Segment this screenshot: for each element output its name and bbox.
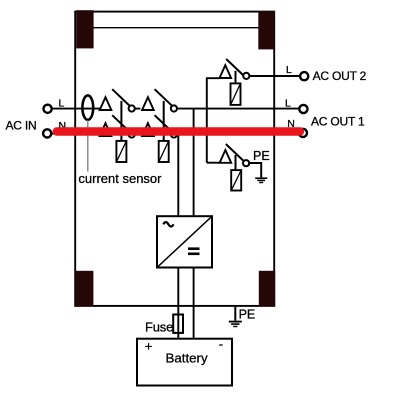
svg-text:L: L xyxy=(285,97,291,109)
relay coil 1 xyxy=(116,141,126,162)
relay L contact 1 pivot xyxy=(129,105,135,111)
relay AC OUT 2 coil xyxy=(231,83,241,105)
svg-text:Fuse: Fuse xyxy=(145,320,173,335)
relay coil 2 xyxy=(159,141,169,162)
wire DC positive to battery xyxy=(177,268,179,340)
relay PE triangle xyxy=(220,150,232,163)
svg-text:PE: PE xyxy=(253,149,270,163)
wire to AC OUT 2 terminal xyxy=(249,75,299,77)
relay L contact 2 triangle xyxy=(142,97,154,110)
svg-text:current sensor: current sensor xyxy=(78,171,162,186)
relay N contact 1 pivot xyxy=(129,131,135,137)
relay L contact 1 blade xyxy=(112,89,130,106)
wire riser AC OUT 2 / PE branch xyxy=(207,78,220,163)
relay N contact 1 blade xyxy=(112,115,130,132)
relay PE link xyxy=(235,155,237,170)
inverter diagonal xyxy=(158,217,212,267)
enclosure case outline xyxy=(75,12,274,306)
wire PE branch horizontal xyxy=(207,162,220,164)
wire top inner bus xyxy=(94,27,259,29)
wire AC IN L lead xyxy=(52,108,100,110)
corner mark top-left xyxy=(76,10,93,48)
wire PE bottom drop xyxy=(234,306,236,321)
relay N contact 2 triangle xyxy=(142,123,154,136)
wire mains L down to inverter xyxy=(193,109,195,217)
wire AC IN N lead xyxy=(52,133,100,135)
relay N contact 1 triangle xyxy=(100,123,112,136)
ground PE right xyxy=(255,178,267,182)
relay AC OUT 2 pivot xyxy=(243,73,249,79)
wire N to AC OUT 1 xyxy=(177,133,298,135)
corner mark bottom-right xyxy=(259,271,275,307)
ground PE bottom xyxy=(229,322,242,327)
terminal AC IN N xyxy=(43,129,51,137)
relay PE coil xyxy=(231,170,241,190)
current sensor ellipse xyxy=(82,95,93,119)
inverter DC equals symbol xyxy=(188,247,200,255)
inverter box U1 xyxy=(157,216,212,267)
corner mark bottom-left xyxy=(75,271,93,307)
terminal AC OUT 1 L xyxy=(299,105,307,113)
terminal AC OUT 1 N xyxy=(299,129,307,137)
svg-text:Battery: Battery xyxy=(166,351,208,366)
terminal AC IN L xyxy=(44,105,52,113)
relay N contact 2 pivot xyxy=(171,131,177,137)
relay L contact 2 blade xyxy=(155,89,173,106)
svg-text:AC OUT 1: AC OUT 1 xyxy=(311,115,365,129)
battery box xyxy=(137,339,232,386)
relay AC OUT 2 blade xyxy=(226,59,244,76)
red N path highlight xyxy=(57,127,300,135)
relay L contact 1 triangle xyxy=(100,97,112,110)
relay PE pivot xyxy=(243,160,249,166)
svg-text:PE: PE xyxy=(239,308,256,322)
relay L contact 2 link xyxy=(163,101,165,141)
corner mark top-right xyxy=(258,11,274,49)
inverter AC tilde symbol xyxy=(163,222,173,226)
svg-text:-: - xyxy=(219,337,223,352)
relay AC OUT 2 link xyxy=(235,71,237,84)
relay AC OUT 2 triangle xyxy=(220,65,232,78)
wire L to AC OUT 1 xyxy=(177,108,299,110)
relay N contact 2 blade xyxy=(155,115,173,132)
wire DC negative to battery xyxy=(193,268,195,340)
relay L contact 2 pivot xyxy=(171,105,177,111)
wire to PE ground xyxy=(249,163,261,177)
wire N between contacts xyxy=(135,133,141,135)
wire mains N down to inverter xyxy=(177,134,179,217)
terminal AC OUT 2 xyxy=(300,72,308,80)
relay L contact 1 link xyxy=(120,101,122,141)
wire L between contacts xyxy=(135,108,141,110)
relay PE blade xyxy=(226,144,244,161)
current sensor leader line xyxy=(87,120,89,172)
svg-text:AC OUT 2: AC OUT 2 xyxy=(313,69,367,83)
svg-text:+: + xyxy=(145,339,153,354)
svg-text:L: L xyxy=(286,64,292,76)
fuse F1 xyxy=(173,315,183,333)
svg-text:AC IN: AC IN xyxy=(6,119,37,133)
